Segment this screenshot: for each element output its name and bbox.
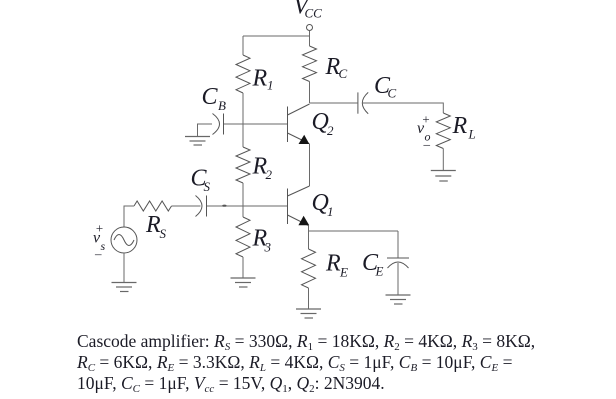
wire RE to ground (308, 288, 310, 309)
svg-text:2: 2 (266, 167, 273, 182)
ground (below CE) (386, 295, 411, 304)
svg-text:S: S (204, 179, 211, 194)
ground (below RE) (296, 309, 321, 318)
wire Q1 emitter down (308, 226, 310, 232)
wire RC bottom to collector node (309, 82, 311, 104)
wire RL to ground (442, 149, 444, 171)
svg-text:1: 1 (327, 204, 334, 219)
capacitor CB (213, 114, 220, 135)
source vs (111, 227, 137, 253)
capacitor CC (357, 92, 359, 113)
svg-text:C: C (202, 84, 219, 110)
svg-text:E: E (375, 264, 384, 279)
ground (below vs) (112, 283, 137, 292)
resistor RL (436, 113, 450, 148)
resistor R3 (236, 217, 250, 257)
wire Q1 base (207, 205, 288, 207)
capacitor CE (397, 231, 399, 258)
svg-text:C: C (339, 66, 348, 81)
svg-text:R: R (325, 251, 341, 277)
svg-text:E: E (339, 265, 348, 280)
svg-text:–: – (423, 137, 431, 152)
svg-text:2: 2 (327, 123, 334, 138)
wire CB to ground (198, 124, 213, 137)
svg-text:R: R (452, 113, 468, 139)
wire RE top (308, 231, 310, 249)
svg-text:3: 3 (264, 240, 272, 255)
svg-text:–: – (94, 246, 102, 261)
resistor R2 (236, 147, 250, 183)
wire top rail (243, 35, 310, 37)
label vs (93, 221, 106, 262)
wire vs to Rs (124, 206, 134, 227)
ground (below RL) (431, 171, 456, 182)
svg-text:S: S (160, 226, 167, 241)
transistor Q2 (288, 104, 310, 144)
wire vs to ground (123, 253, 125, 283)
svg-text:1: 1 (267, 78, 274, 93)
ground (left of CB) (185, 137, 210, 146)
wire Q2 emitter to Q1 collector (309, 144, 311, 187)
wire Q2 base (224, 123, 288, 125)
capacitor CS (196, 196, 203, 217)
node on Q1 base wire (222, 205, 226, 207)
wire R3 to ground (242, 257, 244, 278)
resistor R1 (236, 55, 250, 93)
svg-text:R: R (252, 66, 268, 92)
wire R1 top (242, 36, 244, 55)
wire Vcc stub (309, 31, 311, 37)
wire CE to ground (397, 263, 399, 295)
wire CC to RL (363, 103, 444, 113)
Vcc terminal (307, 25, 313, 31)
wire emitter node to CE (309, 230, 399, 232)
resistor RC (303, 46, 317, 82)
wire collector node to CC (310, 102, 358, 104)
transistor Q1 (288, 186, 310, 226)
wire Rs to CS (172, 205, 201, 207)
caption text (77, 331, 577, 395)
wire R2 to R3 (base node Q1) (242, 183, 244, 217)
svg-text:L: L (468, 127, 476, 142)
wire RC top (309, 36, 311, 46)
svg-text:C: C (388, 86, 397, 101)
label vo (417, 112, 431, 152)
resistor RS (134, 201, 172, 211)
ground (below R3) (231, 278, 256, 287)
svg-text:CC: CC (305, 6, 323, 21)
resistor RE (302, 249, 316, 288)
wire R1 to R2 (base node Q2) (242, 93, 244, 147)
svg-text:B: B (218, 98, 226, 113)
